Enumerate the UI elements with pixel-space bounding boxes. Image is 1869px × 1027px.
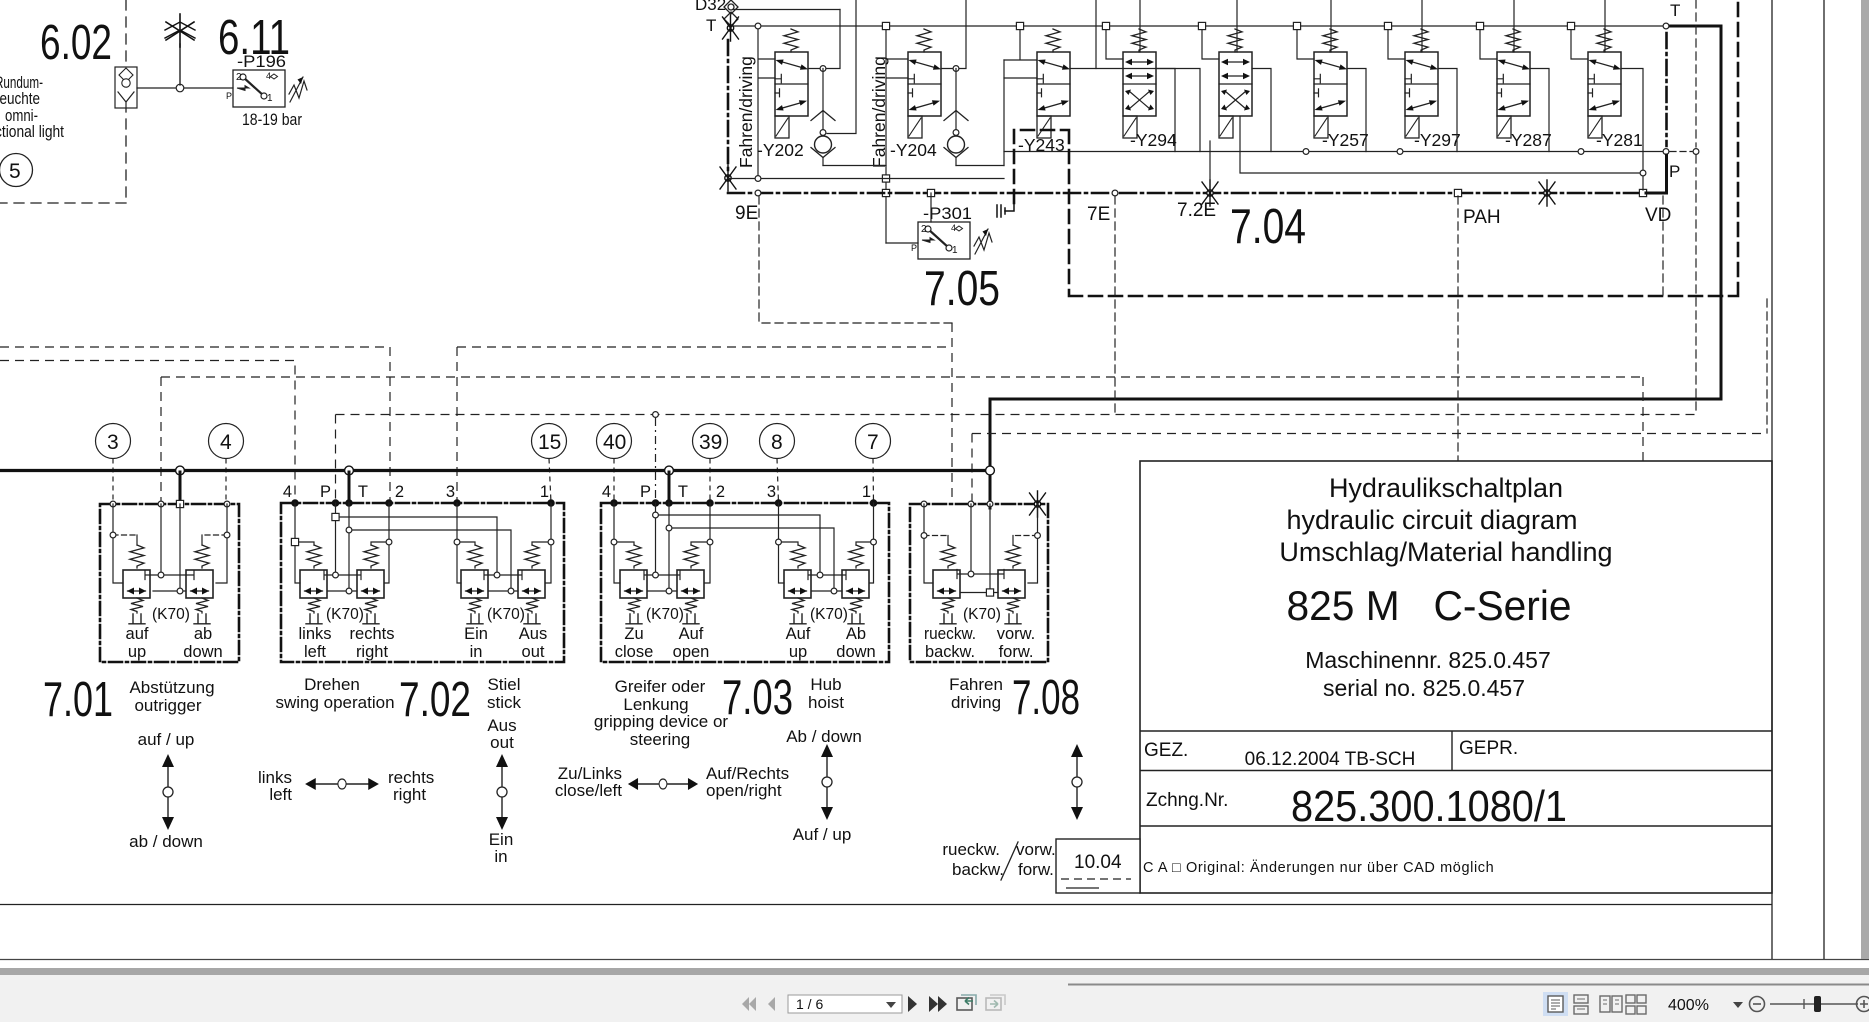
motion arrow 7.03 (628, 778, 698, 790)
svg-text:7.05: 7.05 (924, 262, 1000, 316)
motion arrow 7.01 (162, 754, 174, 830)
svg-text:2: 2 (716, 483, 725, 501)
svg-text:825.300.1080/1: 825.300.1080/1 (1291, 782, 1567, 831)
wire left port drop (924, 504, 933, 583)
wire port4 drop (216, 504, 227, 583)
zoom slider (1770, 1003, 1858, 1005)
check valve under Y202 (811, 69, 835, 166)
boundary Y243 option dashed thick (1014, 0, 1738, 296)
svg-text:825 M C-Serie: 825 M C-Serie (1287, 582, 1572, 629)
wire port3 drop (457, 503, 475, 583)
wire main bus (0, 469, 990, 472)
svg-text:up: up (789, 643, 807, 661)
hose break symbol top (723, 15, 739, 41)
svg-text:vorw.: vorw. (997, 625, 1036, 643)
svg-text:-Y297: -Y297 (1414, 130, 1461, 150)
wire check Y204 to 1004 (956, 165, 1004, 167)
svg-text:Zchng.Nr.: Zchng.Nr. (1146, 790, 1228, 811)
page bottom edge (0, 959, 1869, 961)
left section boundary dash-dot (727, 40, 730, 170)
svg-text:forw.: forw. (1018, 860, 1054, 879)
svg-text:right: right (356, 643, 389, 661)
wire check to x886 (823, 165, 886, 167)
svg-text:VD: VD (1645, 205, 1671, 226)
svg-text:06.12.2004 TB-SCH: 06.12.2004 TB-SCH (1245, 749, 1416, 770)
svg-text:close/left: close/left (555, 781, 622, 800)
wire PAH drop (1457, 196, 1459, 461)
svg-text:Fahren: Fahren (949, 675, 1003, 694)
separator line above right toolbar (1068, 984, 1869, 986)
svg-text:driving: driving (951, 693, 1001, 712)
wire port4 drop (614, 503, 634, 583)
svg-text:swing operation: swing operation (275, 693, 394, 712)
boundary 7.05 dashed (759, 196, 952, 323)
port texts 7.01 (126, 625, 223, 661)
svg-text:Ab / down: Ab / down (786, 727, 862, 746)
wire pilot line (145, 504, 194, 580)
svg-text:Greifer oder: Greifer oder (615, 677, 706, 696)
boundary box 7.03 dash-dot (601, 503, 889, 662)
zoom out (1750, 997, 1765, 1012)
node circle 39 (693, 424, 728, 459)
svg-text:Hydraulikschaltplan: Hydraulikschaltplan (1329, 473, 1563, 503)
wire L4 pilot P (336, 415, 1697, 504)
svg-text:PAH: PAH (1463, 207, 1501, 228)
svg-text:Auf: Auf (786, 625, 811, 643)
motion arrow hoist (821, 744, 833, 820)
svg-text:backw.: backw. (952, 860, 1004, 879)
plugged line star symbol (165, 14, 195, 47)
wire T drop to arrow line (961, 504, 998, 593)
wire to 7.08 port a (951, 323, 953, 504)
svg-text:rueckw.: rueckw. (942, 840, 1000, 859)
valve 7.03 d (842, 570, 869, 598)
zoom in (1857, 997, 1869, 1012)
svg-text:-Y257: -Y257 (1322, 130, 1369, 150)
svg-text:ctional light: ctional light (0, 123, 64, 141)
hose break symbol at wire 178 (720, 165, 736, 191)
svg-text:close: close (615, 643, 654, 661)
svg-text:down: down (183, 643, 222, 661)
svg-text:Hub: Hub (810, 675, 841, 694)
solenoid valve 5 cross type (1202, 26, 1219, 59)
wire L3 long pilot (161, 377, 1643, 504)
svg-text:3: 3 (767, 483, 776, 501)
wire rail 151.5 (1004, 151, 1667, 153)
svg-text:4: 4 (602, 483, 611, 501)
svg-text:open: open (673, 643, 710, 661)
wire vertical 886 T to P301 (886, 26, 908, 243)
wire bus taps thick (180, 471, 669, 505)
boundary box 7.08 dash-dot (910, 504, 1048, 662)
svg-text:7: 7 (867, 431, 879, 454)
svg-text:T: T (358, 483, 368, 501)
svg-text:up: up (128, 643, 146, 661)
svg-text:out: out (522, 643, 545, 661)
wire port1 drop (856, 503, 874, 583)
valve 7.03 c (784, 570, 811, 598)
wire T drop to arrow line (153, 504, 186, 591)
frame bottom line (0, 904, 1772, 906)
wire T to right pair (669, 528, 834, 591)
valve 7.08 left (933, 570, 960, 598)
svg-text:9E: 9E (735, 203, 758, 224)
boundary box 7.02 dash-dot (281, 503, 564, 662)
wire right pair arrow line (489, 590, 518, 592)
svg-text:Auf: Auf (679, 625, 704, 643)
svg-text:-Y204: -Y204 (890, 140, 937, 160)
spring valve2 (195, 545, 209, 568)
svg-text:P: P (320, 483, 331, 501)
svg-text:C A □ Original: Änderungen nur: C A □ Original: Änderungen nur über CAD … (1143, 859, 1494, 876)
wire L1b to port3 7.02 (457, 347, 952, 503)
solenoid valve Y204 (908, 29, 941, 138)
svg-text:left: left (269, 785, 292, 804)
valve 7.03 a (620, 570, 647, 598)
wire 9E drop (1114, 196, 1116, 414)
node circle 3 (96, 424, 131, 459)
svg-text:3: 3 (446, 483, 455, 501)
svg-text:-Y202: -Y202 (757, 140, 804, 160)
wire 7.2E riser (1209, 141, 1211, 190)
wire T rail (734, 25, 1665, 27)
wire right port drop (1028, 504, 1038, 583)
svg-text:ab / down: ab / down (129, 832, 203, 851)
next view icon grayed (986, 995, 1005, 1010)
wire T drop (328, 503, 357, 591)
wire pilot drop (957, 504, 1004, 579)
valve 7.01 left (123, 570, 150, 598)
svg-text:Stiel: Stiel (487, 675, 520, 694)
svg-text:10.04: 10.04 (1074, 852, 1122, 873)
check valve in line 6.02 (115, 67, 137, 108)
svg-text:Drehen: Drehen (304, 675, 360, 694)
section boundary right dash-dot (1665, 33, 1668, 146)
svg-text:Fahren/driving: Fahren/driving (736, 56, 756, 168)
svg-text:40: 40 (603, 431, 626, 454)
wire L2 to port4 7.02 (0, 361, 295, 504)
svg-text:stick: stick (487, 693, 522, 712)
svg-text:4: 4 (220, 431, 232, 454)
valve 7.02 c (461, 570, 488, 598)
node junction (176, 84, 184, 92)
page right edge shade (1861, 0, 1869, 959)
valve 7.02 b (357, 570, 384, 598)
svg-text:5: 5 (9, 160, 21, 183)
svg-text:(K70): (K70) (152, 606, 190, 623)
svg-text:2: 2 (395, 483, 404, 501)
check valve under Y204 (944, 69, 968, 166)
svg-text:Auf / up: Auf / up (793, 825, 852, 844)
node circle 8 (760, 424, 795, 459)
svg-text:outrigger: outrigger (134, 696, 201, 715)
solenoid valve Y287 (1480, 26, 1497, 59)
page number box (788, 995, 902, 1013)
svg-text:right: right (393, 785, 426, 804)
svg-text:39: 39 (699, 431, 722, 454)
wire up to plug (179, 44, 181, 85)
motion arrow 7.08 (1071, 744, 1083, 820)
node circle 15 (532, 424, 567, 459)
wire port3 drop (113, 504, 123, 583)
svg-text:hoist: hoist (808, 693, 844, 712)
svg-text:Ein: Ein (464, 625, 488, 643)
svg-text:18-19 bar: 18-19 bar (242, 110, 302, 129)
svg-text:backw.: backw. (925, 643, 975, 661)
svg-text:gripping device or: gripping device or (594, 712, 729, 731)
svg-text:serial no. 825.0.457: serial no. 825.0.457 (1323, 675, 1525, 701)
svg-text:T: T (678, 483, 688, 501)
wire spring tap left dashed (113, 534, 137, 536)
svg-text:(K70): (K70) (963, 606, 1001, 623)
wire Y204 output (941, 0, 966, 69)
svg-text:forw.: forw. (999, 643, 1034, 661)
wire to P196 (137, 87, 233, 89)
wire T to right pair (349, 530, 511, 591)
node junction L4 P7.03 (653, 412, 659, 418)
svg-text:7.08: 7.08 (1012, 671, 1080, 725)
wire D32 rail (734, 9, 840, 11)
svg-text:6.02: 6.02 (40, 16, 112, 70)
svg-text:T: T (706, 16, 716, 35)
svg-text:7.01: 7.01 (43, 673, 113, 727)
svg-text:open/right: open/right (706, 781, 782, 800)
port labels 7.02 (283, 483, 549, 501)
svg-text:left: left (304, 643, 326, 661)
svg-text:Aus: Aus (519, 625, 547, 643)
valve 7.08 right (998, 570, 1025, 598)
svg-text:auf: auf (126, 625, 149, 643)
wire T main thick (990, 26, 1721, 508)
svg-text:400%: 400% (1668, 997, 1709, 1014)
svg-text:hydraulic circuit diagram: hydraulic circuit diagram (1286, 505, 1577, 535)
svg-text:(K70): (K70) (810, 606, 848, 623)
svg-text:7.04: 7.04 (1230, 200, 1306, 254)
frame right verticals (1772, 0, 1824, 959)
svg-text:-P301: -P301 (923, 204, 972, 223)
wire L1a to port2 7.02 (0, 347, 390, 503)
svg-text:out: out (490, 733, 514, 752)
hose break on box corner (1030, 491, 1046, 517)
valve 7.01 right (186, 570, 213, 598)
port labels 7.03 (602, 483, 871, 501)
svg-text:(K70): (K70) (646, 606, 684, 623)
svg-text:GEPR.: GEPR. (1459, 738, 1518, 759)
svg-text:nleuchte: nleuchte (0, 90, 40, 108)
svg-text:Umschlag/Material handling: Umschlag/Material handling (1279, 537, 1612, 567)
revision box 10.04 (1056, 839, 1140, 893)
wire rail 178 (728, 178, 1004, 180)
wire Y202 output loop (808, 10, 840, 69)
wire T drop (648, 503, 677, 591)
svg-text:Abstützung: Abstützung (129, 678, 214, 697)
svg-text:4: 4 (283, 483, 292, 501)
wire VD right drop (1766, 299, 1768, 433)
solenoid valve Y297 (1388, 26, 1405, 59)
svg-text:15: 15 (538, 431, 561, 454)
svg-text:7.03: 7.03 (722, 671, 793, 725)
boundary box 7.01 dash-dot (100, 504, 239, 662)
svg-text:P: P (640, 483, 651, 501)
motion arrow stick (496, 754, 508, 830)
valve 7.03 b (677, 570, 704, 598)
wire port2 drop (691, 503, 710, 583)
wire port1 drop (532, 503, 551, 583)
solenoid valve Y257 (1297, 26, 1314, 59)
wire port4 drop (295, 503, 314, 583)
svg-text:in: in (494, 847, 507, 866)
svg-text:D32: D32 (695, 0, 726, 14)
node circle 7 (856, 424, 891, 459)
svg-text:1: 1 (540, 483, 549, 501)
svg-text:7.02: 7.02 (399, 673, 471, 727)
node circle 4 (209, 424, 244, 459)
wire P to right pair (336, 517, 498, 575)
nav next buttons (908, 996, 947, 1012)
svg-text:1 / 6: 1 / 6 (796, 996, 823, 1012)
wire right pair pilot (808, 571, 846, 580)
wire Y243 feedback loop (1004, 60, 1200, 166)
svg-text:1: 1 (862, 483, 871, 501)
wire port3 drop (779, 503, 799, 583)
svg-text:3: 3 (107, 431, 119, 454)
svg-text:-Y294: -Y294 (1130, 130, 1177, 150)
wire port P drop (324, 503, 361, 580)
coupling symbols left (724, 0, 738, 26)
svg-text:ab: ab (194, 625, 212, 643)
solenoid valve Y243 (1037, 29, 1070, 138)
svg-text:P: P (1669, 162, 1680, 181)
svg-text:7.2E: 7.2E (1177, 200, 1216, 221)
wire VD drop (1662, 196, 1664, 296)
wire L5 VD to 7.08 (972, 434, 1767, 509)
nav first page button (742, 997, 775, 1011)
solenoid valve Y294 (1106, 26, 1123, 59)
section border 7.04 dash-dot (728, 192, 1643, 195)
wire right pair pilot (484, 571, 522, 580)
valve 7.02 a (300, 570, 327, 598)
svg-text:vorw.: vorw. (1016, 840, 1056, 859)
wire P thick (1646, 155, 1667, 193)
frame boundary dashed 6.02 (0, 0, 126, 203)
wire T to Y243 (1004, 26, 1037, 78)
svg-text:(K70): (K70) (326, 606, 364, 623)
valve 7.02 d (518, 570, 545, 598)
coupling symbol 7E (997, 203, 1014, 217)
page layout icons (1543, 992, 1568, 1016)
prev view icon (957, 995, 976, 1010)
motion arrow 7.02 (305, 778, 379, 790)
svg-text:auf / up: auf / up (138, 730, 195, 749)
spring+exhaust below right (196, 598, 208, 613)
svg-text:Ab: Ab (846, 625, 866, 643)
wire from top to Y202 check circuit (827, 0, 856, 134)
svg-text:GEZ.: GEZ. (1144, 740, 1188, 761)
svg-text:rechts: rechts (350, 625, 395, 643)
solenoid valve Y281 (1571, 26, 1588, 59)
svg-text:in: in (470, 643, 483, 661)
svg-text:links: links (298, 625, 331, 643)
wire P pilot riser (1695, 0, 1697, 414)
node circle 5 (0, 154, 33, 187)
svg-text:7E: 7E (1087, 204, 1110, 225)
svg-text:Maschinennr. 825.0.457: Maschinennr. 825.0.457 (1305, 647, 1551, 673)
svg-text:steering: steering (630, 730, 690, 749)
wire T to Y202 (758, 26, 775, 179)
wire port2 drop (371, 503, 389, 583)
wire pilot Y287 return (1240, 117, 1643, 173)
wire port P drop (644, 503, 680, 580)
svg-text:down: down (836, 643, 875, 661)
spring+exhaust below left (131, 598, 143, 613)
svg-text:(K70): (K70) (487, 606, 525, 623)
svg-text:rueckw.: rueckw. (924, 625, 976, 643)
svg-text:8: 8 (771, 431, 783, 454)
svg-text:-Y287: -Y287 (1505, 130, 1552, 150)
svg-text:-Y281: -Y281 (1596, 130, 1643, 150)
node circle 40 (597, 424, 632, 459)
svg-text:T: T (1670, 1, 1680, 20)
solenoid valve Y202 (775, 29, 808, 138)
svg-text:Zu: Zu (624, 625, 643, 643)
spring valve1 (130, 545, 144, 568)
wire P to right pair (656, 515, 821, 575)
svg-text:-P196: -P196 (237, 52, 286, 71)
wire right pair arrow line (812, 590, 842, 592)
